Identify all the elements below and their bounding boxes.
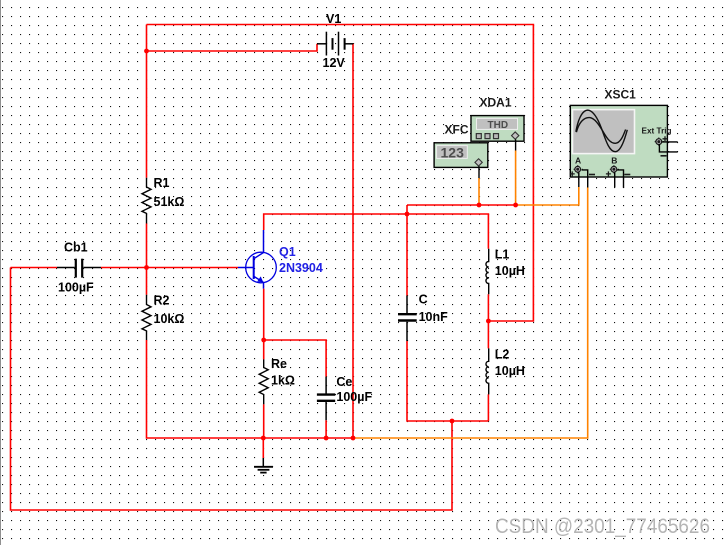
svg-text:2N3904: 2N3904 bbox=[279, 261, 323, 275]
junction dot L1 L2 tap bbox=[486, 319, 491, 324]
value 10nF bbox=[419, 310, 449, 324]
oscilloscope XSC1 bbox=[570, 105, 672, 177]
capacitor C bbox=[398, 296, 417, 342]
svg-text:10kΩ: 10kΩ bbox=[154, 312, 185, 326]
wire battery right drop bbox=[352, 44, 354, 438]
wire tank right between L1 and tap bbox=[487, 294, 489, 348]
svg-text:THD: THD bbox=[488, 120, 509, 131]
inductor L2 bbox=[486, 348, 489, 394]
label Ce bbox=[336, 375, 352, 389]
wire ext trig minus stub bbox=[659, 144, 677, 152]
wire tank left lower and bottom bbox=[407, 341, 488, 421]
svg-text:Ext Trig: Ext Trig bbox=[642, 127, 672, 136]
junction dot base node bbox=[144, 265, 149, 270]
value 1k ohm bbox=[271, 374, 295, 388]
value 51k ohm bbox=[154, 195, 185, 209]
label XFC bbox=[445, 123, 469, 137]
svg-text:10µH: 10µH bbox=[495, 264, 525, 278]
value 2N3904 bbox=[279, 261, 323, 275]
svg-text:XSC1: XSC1 bbox=[605, 88, 637, 102]
wire orange XFC drop bbox=[478, 178, 480, 205]
capacitor Ce bbox=[317, 377, 335, 421]
wire emitter to Re and Ce bbox=[264, 289, 326, 377]
label C bbox=[419, 293, 428, 307]
junction dot battery left on rail bbox=[144, 49, 149, 54]
svg-text:Re: Re bbox=[271, 357, 287, 371]
wire base from Cb1 to Q1 bbox=[101, 267, 238, 269]
svg-text:Cb1: Cb1 bbox=[64, 241, 88, 255]
svg-text:1kΩ: 1kΩ bbox=[271, 374, 295, 388]
svg-text:C: C bbox=[419, 293, 428, 307]
wire instrument line red bbox=[407, 204, 516, 206]
value 100uF bbox=[336, 390, 372, 404]
left window border bbox=[0, 0, 2, 545]
svg-text:Q1: Q1 bbox=[279, 245, 296, 259]
junction dot emitter node bbox=[261, 338, 266, 343]
label L2 bbox=[495, 348, 510, 362]
battery V1 bbox=[317, 32, 353, 56]
wire orange instrument line to scope A bbox=[516, 187, 579, 205]
svg-text:12V: 12V bbox=[323, 56, 346, 70]
wire tank right below L2 bbox=[487, 394, 489, 421]
junction dot XFC on instrument line bbox=[477, 203, 482, 208]
label Q1 bbox=[279, 245, 296, 259]
resistor R1 bbox=[142, 178, 151, 224]
wire battery left connection bbox=[147, 44, 318, 51]
wire collector to tank top bbox=[264, 214, 489, 249]
wire left rail middle segment bbox=[146, 223, 148, 294]
wire top rail from left rail to L1/L2 tap bbox=[147, 25, 534, 322]
label Re bbox=[271, 357, 287, 371]
ground bbox=[254, 458, 273, 473]
junction dot tank bottom riser bbox=[450, 419, 455, 424]
resistor R2 bbox=[142, 295, 151, 340]
svg-text:A: A bbox=[575, 156, 581, 166]
wire scope B minus stub bbox=[617, 170, 624, 188]
value 100uF bbox=[58, 281, 94, 295]
wire left rail lower segment and bottom rail bbox=[147, 340, 354, 438]
wire Re lower lead red bbox=[263, 404, 265, 438]
wire base left of Cb1 bbox=[11, 267, 58, 269]
wire far left loop to tank bottom bbox=[11, 268, 453, 511]
junction dot collector tank left bbox=[405, 212, 410, 217]
wire scope B plus stub bbox=[614, 173, 616, 188]
wire scope A minus stub bbox=[582, 170, 588, 188]
junction dot ground on bottom rail bbox=[261, 436, 266, 441]
resistor Re bbox=[259, 359, 268, 404]
svg-text:CSDN @2301_77465626: CSDN @2301_77465626 bbox=[495, 515, 710, 538]
svg-text:XDA1: XDA1 bbox=[480, 96, 512, 110]
label R2 bbox=[154, 294, 170, 308]
svg-text:100µF: 100µF bbox=[336, 390, 372, 404]
svg-text:10nF: 10nF bbox=[419, 310, 449, 324]
svg-text:Ce: Ce bbox=[336, 375, 352, 389]
junction dot battery drop on bottom rail bbox=[351, 436, 356, 441]
junction dot XDA1 on instrument line bbox=[513, 203, 518, 208]
frequency counter XFC bbox=[434, 143, 488, 178]
junction dot Ce on bottom rail bbox=[324, 436, 329, 441]
capacitor Cb1 bbox=[57, 259, 101, 278]
svg-text:XFC: XFC bbox=[445, 123, 469, 137]
label XSC1 bbox=[605, 88, 637, 102]
wire left rail upper segment bbox=[146, 25, 148, 178]
wire Ce bottom red bbox=[325, 420, 327, 438]
value 10uH bbox=[495, 264, 525, 278]
wire orange XDA1 drop bbox=[515, 151, 517, 206]
watermark bbox=[495, 515, 710, 538]
wire ground red stub bbox=[262, 438, 264, 458]
wire scope A plus stub bbox=[578, 173, 580, 188]
distortion analyzer XDA1 bbox=[471, 116, 524, 151]
transistor Q1 bbox=[238, 230, 276, 289]
value 10k ohm bbox=[154, 312, 185, 326]
label L1 bbox=[495, 248, 510, 262]
wire orange bottom rail to scope A minus bbox=[353, 188, 588, 439]
svg-text:100µF: 100µF bbox=[58, 281, 94, 295]
value 12V bbox=[323, 56, 346, 70]
svg-text:L1: L1 bbox=[495, 248, 510, 262]
svg-text:R1: R1 bbox=[154, 176, 170, 190]
label V1 bbox=[326, 12, 341, 26]
wire tank left vertical bbox=[406, 205, 408, 296]
svg-text:123: 123 bbox=[441, 145, 465, 161]
svg-text:V1: V1 bbox=[326, 12, 341, 26]
svg-text:10µH: 10µH bbox=[495, 364, 525, 378]
svg-text:R2: R2 bbox=[154, 294, 170, 308]
value 10uH bbox=[495, 364, 525, 378]
wire Re upper lead red bbox=[263, 340, 265, 359]
wire ext trig plus stub bbox=[662, 141, 678, 143]
svg-text:B: B bbox=[611, 156, 617, 166]
label Cb1 bbox=[64, 241, 88, 255]
label R1 bbox=[154, 176, 170, 190]
label XDA1 bbox=[480, 96, 512, 110]
svg-text:51kΩ: 51kΩ bbox=[154, 195, 185, 209]
svg-text:L2: L2 bbox=[495, 348, 510, 362]
inductor L1 bbox=[486, 249, 489, 294]
